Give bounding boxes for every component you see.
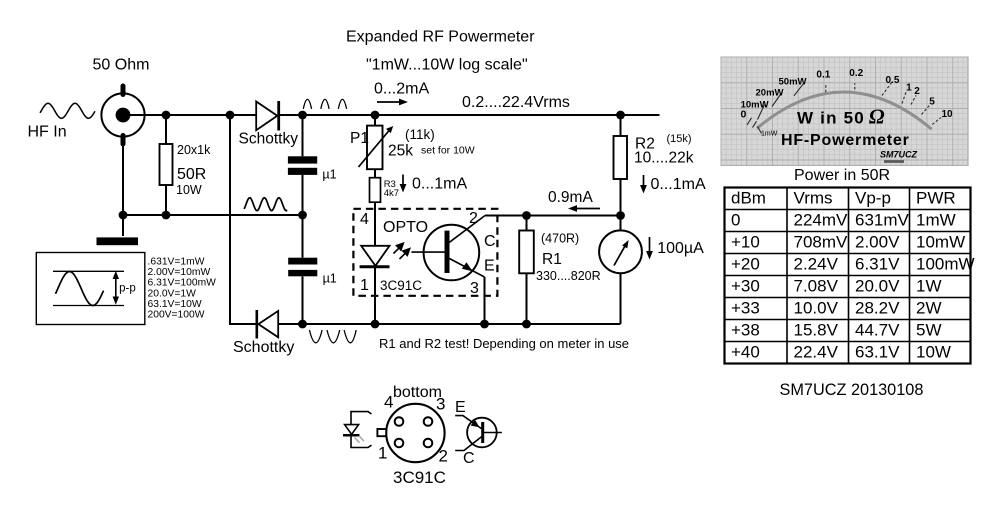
svg-text:0.2: 0.2 bbox=[849, 68, 863, 79]
pinout can 3C91C bbox=[377, 404, 444, 462]
svg-text:2.00V: 2.00V bbox=[855, 233, 900, 252]
svg-text:3: 3 bbox=[436, 395, 445, 414]
ground symbol bbox=[97, 237, 139, 245]
svg-text:25k: 25k bbox=[388, 142, 413, 159]
svg-text:C: C bbox=[463, 450, 475, 467]
svg-text:R1: R1 bbox=[542, 251, 562, 268]
svg-text:224mV: 224mV bbox=[794, 211, 849, 230]
svg-text:10.0V: 10.0V bbox=[794, 299, 839, 318]
potentiometer P1 25k bbox=[359, 126, 394, 170]
svg-text:+40: +40 bbox=[731, 343, 760, 362]
svg-text:63.1V: 63.1V bbox=[855, 343, 900, 362]
svg-text:C: C bbox=[484, 233, 496, 250]
svg-text:20mW: 20mW bbox=[756, 87, 784, 98]
p-p arrow bbox=[113, 271, 119, 305]
junction: R1 top on collector rail bbox=[522, 211, 531, 220]
svg-text:dBm: dBm bbox=[731, 189, 766, 208]
svg-text:0.2....22.4Vrms: 0.2....22.4Vrms bbox=[462, 94, 570, 111]
svg-text:E: E bbox=[484, 258, 495, 275]
junction: 50R bottom bbox=[162, 211, 171, 220]
junction: R1 bottom bbox=[522, 320, 531, 329]
svg-text:100mW: 100mW bbox=[916, 255, 975, 274]
svg-text:µ1: µ1 bbox=[322, 167, 336, 181]
svg-text:50mW: 50mW bbox=[779, 77, 807, 88]
wire resistor 50R bottom bbox=[165, 185, 167, 215]
junction: LED cathode on bottom rail bbox=[371, 320, 380, 329]
svg-text:0.1: 0.1 bbox=[816, 69, 830, 80]
LED of optocoupler bbox=[360, 246, 390, 267]
svg-text:10: 10 bbox=[942, 109, 954, 120]
svg-text:15.8V: 15.8V bbox=[794, 321, 839, 340]
svg-text:OPTO: OPTO bbox=[383, 219, 428, 236]
svg-text:P1: P1 bbox=[350, 130, 369, 147]
junction: 50R top on top rail bbox=[162, 111, 171, 120]
svg-text:bottom: bottom bbox=[393, 384, 442, 401]
svg-text:2.00V=10mW: 2.00V=10mW bbox=[148, 267, 211, 278]
svg-text:Power in 50R: Power in 50R bbox=[794, 167, 890, 184]
resistor R3 4k7 bbox=[370, 178, 381, 203]
meter face scale image bbox=[721, 57, 968, 166]
svg-text:50R: 50R bbox=[177, 166, 206, 183]
svg-text:50 Ohm: 50 Ohm bbox=[93, 57, 150, 74]
HF input sine squiggle bbox=[40, 103, 95, 118]
wire emitter down bbox=[484, 277, 486, 324]
pinout transistor symbol bbox=[455, 416, 502, 451]
svg-text:2.24V: 2.24V bbox=[794, 255, 839, 274]
svg-text:0.5: 0.5 bbox=[886, 75, 900, 86]
wire left branch down to bottom schottky bbox=[230, 115, 257, 324]
svg-text:HF In: HF In bbox=[28, 124, 67, 141]
svg-text:0...2mA: 0...2mA bbox=[374, 81, 429, 98]
svg-text:SM7UCZ 20130108: SM7UCZ 20130108 bbox=[780, 381, 924, 399]
svg-text:3C91C: 3C91C bbox=[393, 468, 446, 487]
svg-text:10mW: 10mW bbox=[741, 99, 769, 110]
svg-text:(470R): (470R) bbox=[541, 231, 579, 245]
svg-text:5W: 5W bbox=[916, 321, 942, 340]
svg-text:+33: +33 bbox=[731, 299, 760, 318]
wire R2 top bbox=[620, 115, 622, 136]
svg-text:28.2V: 28.2V bbox=[855, 299, 900, 318]
svg-text:"1mW...10W log scale": "1mW...10W log scale" bbox=[366, 56, 528, 73]
svg-text:R1 and R2 test! Depending on m: R1 and R2 test! Depending on meter in us… bbox=[379, 336, 629, 351]
svg-text:PWR: PWR bbox=[916, 189, 956, 208]
svg-text:1: 1 bbox=[378, 444, 387, 463]
svg-text:4: 4 bbox=[384, 393, 393, 412]
svg-text:20x1k: 20x1k bbox=[177, 143, 211, 157]
svg-text:0...1mA: 0...1mA bbox=[412, 176, 467, 193]
wire P1 to R3 bbox=[374, 170, 376, 178]
wire cap chain bottom bbox=[302, 276, 304, 324]
junction: coax shield to ground rail bbox=[119, 211, 128, 220]
svg-text:4: 4 bbox=[360, 211, 369, 228]
wire cap chain middle bbox=[302, 175, 304, 258]
wire R1 bottom bbox=[526, 273, 528, 324]
coax connector J1 50 Ohm bbox=[101, 86, 144, 144]
svg-text:10W: 10W bbox=[916, 343, 951, 362]
svg-text:3C91C: 3C91C bbox=[380, 278, 422, 293]
svg-text:20.0V=1W: 20.0V=1W bbox=[148, 288, 197, 299]
svg-text:(11k): (11k) bbox=[405, 127, 435, 142]
arrow down 0...1mA (R3) bbox=[400, 175, 407, 193]
svg-text:0...1mA: 0...1mA bbox=[651, 176, 706, 193]
svg-text:+10: +10 bbox=[731, 233, 760, 252]
svg-text:10W: 10W bbox=[176, 183, 202, 197]
wire R3 to LED bbox=[374, 202, 376, 246]
svg-text:1: 1 bbox=[360, 277, 369, 294]
svg-text:+38: +38 bbox=[731, 321, 760, 340]
svg-text:1W: 1W bbox=[916, 277, 942, 296]
resistor 20x1k 50R 10W bbox=[160, 144, 173, 185]
svg-text:HF-Powermeter: HF-Powermeter bbox=[781, 132, 910, 149]
svg-text:Vp-p: Vp-p bbox=[855, 189, 891, 208]
junction: R2 top bbox=[616, 111, 625, 120]
wire P1 top bbox=[374, 115, 376, 126]
svg-text:22.4V: 22.4V bbox=[794, 343, 839, 362]
wire coax shield down bbox=[122, 144, 124, 215]
diode schottky bottom D2 bbox=[257, 310, 278, 339]
wire meter top bbox=[620, 216, 622, 231]
svg-text:330....820R: 330....820R bbox=[536, 269, 601, 283]
wire cap chain top bbox=[302, 115, 304, 156]
svg-text:10mW: 10mW bbox=[916, 233, 965, 252]
svg-text:100µA: 100µA bbox=[657, 240, 704, 257]
meter M1 100uA bbox=[599, 230, 642, 273]
svg-text:708mV: 708mV bbox=[794, 233, 849, 252]
svg-text:6.31V=100mW: 6.31V=100mW bbox=[148, 278, 217, 289]
svg-text:3: 3 bbox=[470, 280, 479, 297]
svg-text:2: 2 bbox=[914, 86, 920, 97]
svg-text:Schottky: Schottky bbox=[239, 131, 299, 148]
arrow left 0.9mA bbox=[568, 205, 600, 212]
arrow down 100uA bbox=[646, 237, 653, 260]
svg-text:6.31V: 6.31V bbox=[855, 255, 900, 274]
pinout LED symbol bbox=[343, 412, 372, 448]
wire meter bottom bbox=[620, 273, 622, 324]
svg-text:7.08V: 7.08V bbox=[794, 277, 839, 296]
arrow right 0...2mA bbox=[377, 99, 408, 106]
wire resistor 50R top bbox=[165, 115, 167, 144]
wire ground stub bbox=[122, 215, 124, 236]
wire bottom rail bbox=[278, 323, 621, 325]
svg-text:(15k): (15k) bbox=[667, 133, 692, 145]
junction: branch to bottom schottky bbox=[226, 111, 235, 120]
svg-text:+20: +20 bbox=[731, 255, 760, 274]
capacitor C2 u1 bbox=[288, 258, 317, 277]
svg-text:63.1V=10W: 63.1V=10W bbox=[148, 299, 202, 310]
table power in 50R bbox=[725, 188, 975, 364]
wire top rail left: coax to schottky bbox=[130, 114, 256, 116]
svg-text:2: 2 bbox=[439, 447, 448, 466]
svg-text:1mW: 1mW bbox=[916, 211, 956, 230]
rectified humps symbol bottom bbox=[309, 330, 356, 343]
svg-text:4k7: 4k7 bbox=[384, 188, 399, 199]
junction: cap midpoint bbox=[298, 211, 307, 220]
sine wave bbox=[56, 272, 104, 306]
svg-text:set for 10W: set for 10W bbox=[421, 145, 475, 157]
svg-text:SM7UCZ: SM7UCZ bbox=[880, 149, 918, 159]
capacitor C1 u1 bbox=[288, 156, 317, 175]
junction: emitter on bottom rail bbox=[480, 320, 489, 329]
svg-text:0: 0 bbox=[731, 211, 740, 230]
svg-text:µ1: µ1 bbox=[323, 271, 337, 285]
wire LED to bottom rail bbox=[374, 267, 376, 324]
pinout LED light marks bbox=[355, 436, 365, 443]
svg-text:1: 1 bbox=[906, 83, 912, 94]
svg-text:631mV: 631mV bbox=[855, 211, 910, 230]
svg-text:0.9mA: 0.9mA bbox=[548, 189, 593, 206]
svg-text:W in 50Ω: W in 50Ω bbox=[797, 105, 886, 129]
svg-text:200V=100W: 200V=100W bbox=[148, 309, 205, 320]
svg-text:20.0V: 20.0V bbox=[855, 277, 900, 296]
svg-text:44.7V: 44.7V bbox=[855, 321, 900, 340]
diode schottky top D1 bbox=[256, 101, 279, 131]
ac squiggle mid bbox=[244, 198, 287, 211]
svg-text:Expanded RF Powermeter: Expanded RF Powermeter bbox=[346, 29, 535, 46]
svg-text:Schottky: Schottky bbox=[233, 339, 294, 356]
junction: cap chain bottom bbox=[298, 320, 307, 329]
wire R1 top bbox=[526, 216, 528, 231]
svg-text:Vrms: Vrms bbox=[794, 189, 833, 208]
svg-text:.631V=1mW: .631V=1mW bbox=[148, 257, 205, 268]
wire top rail right: schottky to end bbox=[279, 114, 660, 116]
junction: P1 top bbox=[371, 111, 380, 120]
optocoupler dashed box U1 bbox=[353, 209, 497, 296]
resistor R1 330..820R bbox=[519, 231, 534, 274]
svg-text:2W: 2W bbox=[916, 299, 942, 318]
rectified humps symbol top bbox=[303, 99, 346, 109]
junction: cap chain top bbox=[298, 111, 307, 120]
svg-text:+30: +30 bbox=[731, 277, 760, 296]
svg-text:10....22k: 10....22k bbox=[634, 149, 694, 166]
resistor R2 10..22k bbox=[614, 136, 628, 179]
wire R2 bottom bbox=[620, 179, 622, 216]
wire mid ground rail bbox=[123, 214, 303, 216]
svg-text:1mW: 1mW bbox=[761, 131, 778, 138]
wire collector to rail bbox=[485, 215, 621, 217]
arrow down 0...1mA (R2) bbox=[640, 175, 647, 194]
junction: R2 bottom / meter top bbox=[616, 211, 625, 220]
inset box sine p-p bbox=[36, 253, 145, 325]
LED light arrows bbox=[394, 243, 410, 259]
phototransistor Q1 bbox=[411, 216, 485, 281]
svg-text:p-p: p-p bbox=[119, 283, 136, 295]
svg-text:E: E bbox=[455, 399, 466, 416]
svg-text:5: 5 bbox=[929, 97, 935, 108]
